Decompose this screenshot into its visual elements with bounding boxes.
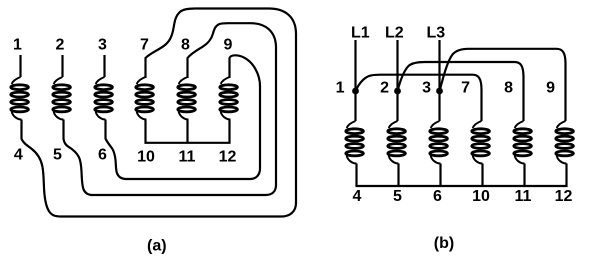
svg-text:1: 1 — [336, 80, 345, 97]
inductor coil 7-10 — [136, 77, 154, 120]
terminal stub 2 — [61, 55, 63, 77]
svg-text:1: 1 — [13, 37, 22, 54]
jumper wire node 3 to terminal 9 — [440, 49, 566, 121]
svg-text:4: 4 — [14, 147, 23, 164]
star bus joining terminals 10 11 12 — [146, 120, 230, 143]
svg-text:2: 2 — [380, 80, 389, 97]
inductor coil 8-11 — [178, 77, 196, 120]
line L2 feed wire — [396, 40, 398, 121]
line L3 feed wire — [438, 40, 440, 121]
svg-text:(b): (b) — [434, 235, 454, 252]
inductor coil 1-4 — [346, 121, 364, 164]
inductor coil 3-6 — [430, 121, 448, 164]
svg-text:8: 8 — [504, 80, 513, 97]
svg-text:9: 9 — [546, 80, 555, 97]
svg-text:L2: L2 — [385, 25, 404, 42]
svg-text:12: 12 — [555, 188, 573, 205]
jumper wire node 1 to terminal 7 — [356, 75, 482, 121]
svg-text:12: 12 — [219, 149, 237, 166]
wire loop A: terminal 4 to terminal 7 — [22, 9, 297, 217]
inductor coil 8-11 — [514, 121, 532, 164]
svg-text:8: 8 — [181, 37, 190, 54]
jumper wire node 2 to terminal 8 — [398, 62, 524, 121]
svg-text:L3: L3 — [427, 25, 446, 42]
svg-text:6: 6 — [433, 188, 442, 205]
junction node 3 dot — [436, 88, 443, 95]
svg-text:9: 9 — [224, 37, 233, 54]
svg-text:2: 2 — [56, 37, 65, 54]
wire loop C: terminal 6 to terminal 9 — [106, 55, 261, 179]
inductor coil 2-5 — [53, 77, 71, 120]
svg-text:5: 5 — [53, 147, 62, 164]
inductor coil 3-6 — [95, 77, 113, 120]
svg-text:11: 11 — [515, 188, 532, 205]
terminal stub 3 — [103, 55, 105, 77]
svg-text:3: 3 — [98, 37, 107, 54]
inductor coil 2-5 — [388, 121, 406, 164]
terminal stub 1 — [19, 55, 21, 77]
svg-text:7: 7 — [461, 80, 470, 97]
svg-text:4: 4 — [353, 188, 362, 205]
line L1 feed wire — [354, 40, 356, 121]
svg-text:(a): (a) — [147, 238, 167, 255]
junction node 1 dot — [352, 88, 359, 95]
svg-text:6: 6 — [98, 147, 107, 164]
svg-text:5: 5 — [393, 188, 402, 205]
svg-text:7: 7 — [140, 37, 149, 54]
neutral bus joining terminals 4 5 6 10 11 12 — [357, 164, 567, 187]
svg-text:10: 10 — [472, 188, 490, 205]
junction node 2 dot — [394, 88, 401, 95]
svg-text:L1: L1 — [351, 25, 370, 42]
svg-text:10: 10 — [137, 149, 155, 166]
inductor coil 7-10 — [472, 121, 490, 164]
wire loop B: terminal 5 to terminal 8 — [64, 23, 277, 195]
svg-text:11: 11 — [179, 149, 196, 166]
inductor coil 9-12 — [556, 121, 574, 164]
svg-text:3: 3 — [422, 80, 431, 97]
inductor coil 9-12 — [220, 77, 238, 120]
inductor coil 1-4 — [11, 77, 29, 120]
